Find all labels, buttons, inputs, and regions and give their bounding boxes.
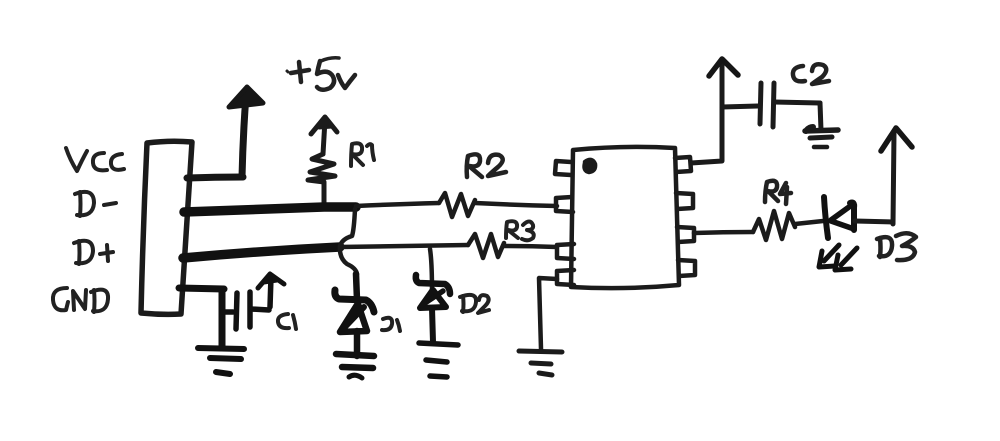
IC pin 2 (left) <box>556 197 573 212</box>
zener diode D2 <box>416 275 450 342</box>
ground below IC <box>519 351 562 375</box>
resistor R4 <box>753 211 823 240</box>
resistor R2 <box>439 193 557 217</box>
wire D3 to arrow <box>855 133 894 224</box>
power arrow above C2 node <box>709 59 738 76</box>
ground below D1 <box>336 354 374 378</box>
label +5v <box>287 58 355 90</box>
LED D3 (points left, cathode bar on left) <box>824 197 854 238</box>
IC pin-1 dot marker <box>585 160 596 172</box>
capacitor C2 <box>722 83 821 130</box>
wire D+ to R3 <box>340 245 468 247</box>
wire IC pin6 to R4 <box>694 232 753 233</box>
wire IC pin8 to +5V / C2 node <box>691 64 722 163</box>
wire D- to R2 <box>356 203 439 206</box>
wire D+ drop to D2 <box>430 249 432 291</box>
wire junction drop from D- to D1 <box>340 209 357 274</box>
power arrow right of D3 <box>881 128 912 151</box>
wire GND from connector <box>179 288 224 347</box>
label C1 <box>278 314 296 329</box>
resistor R3 <box>468 234 557 258</box>
+5V power arrow <box>229 87 263 107</box>
label D3 <box>877 233 916 260</box>
IC pin 1 (left top) <box>555 161 571 175</box>
IC U1 body <box>571 147 679 288</box>
ground below C1 <box>198 348 244 374</box>
wire D+ from connector (thick) <box>183 247 340 258</box>
ground below C2 <box>805 127 838 147</box>
wire VCC from connector to +5V arrow <box>187 95 246 178</box>
zener diode D1 <box>335 274 374 356</box>
capacitor C1 <box>223 277 271 329</box>
IC pin 8 (right top) <box>675 157 691 172</box>
label R3 <box>506 221 534 240</box>
label GND <box>53 288 108 312</box>
label C2 <box>793 64 829 84</box>
LED arrows of D3 <box>819 245 857 270</box>
label R2 <box>467 154 506 177</box>
label VCC <box>66 148 124 171</box>
IC pin 6 (right) <box>677 227 694 242</box>
resistor R1 (vertical with +5V arrow) <box>308 117 337 204</box>
label D2 <box>460 295 489 313</box>
label D+ <box>74 241 113 264</box>
arrow above C1 <box>258 274 284 288</box>
label D1 <box>382 318 400 331</box>
label R4 <box>765 181 791 204</box>
label D- <box>75 192 116 216</box>
IC pin 7 (right) <box>676 193 693 209</box>
wire IC pin4 to ground <box>539 278 557 349</box>
label R1 <box>351 143 374 166</box>
connector J1 (USB plug body) <box>141 141 192 314</box>
IC pin 4 (left bottom) <box>557 270 574 285</box>
IC pin 3 (left) <box>557 244 574 259</box>
wire D- from connector (thick) <box>184 207 356 212</box>
IC pin 5 (right bottom) <box>678 260 695 276</box>
ground below D2 <box>419 343 458 377</box>
